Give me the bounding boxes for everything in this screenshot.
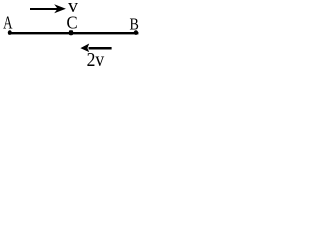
svg-text:B: B: [130, 15, 139, 33]
midpoint dot at C: [69, 30, 73, 35]
endpoint dot at A: [8, 30, 12, 35]
svg-text:2v: 2v: [87, 49, 105, 70]
rod from A to B: [8, 32, 138, 34]
wire: [30, 8, 59, 10]
svg-text:C: C: [67, 13, 78, 32]
svg-text:A: A: [3, 13, 13, 33]
velocity arrow 2v (leftward, below rod right of C): [80, 44, 111, 53]
wire: [89, 47, 112, 50]
endpoint dot at B: [134, 30, 138, 35]
velocity arrow v (rightward, above rod near C): [30, 4, 66, 13]
